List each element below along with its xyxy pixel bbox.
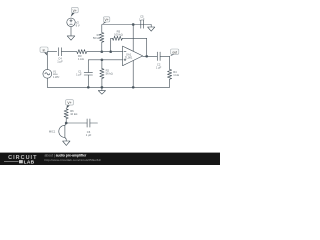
svg-text:56 kΩ: 56 kΩ: [93, 36, 100, 40]
flag V+ (mic): [66, 100, 74, 109]
capacitor C5: [138, 20, 143, 28]
label R2 56 k: [106, 69, 113, 76]
label C6 value: [86, 130, 92, 137]
node mic/R6: [65, 122, 68, 125]
label C5 value: [139, 15, 145, 22]
node minus/R1: [100, 50, 103, 53]
wire R2 top: [101, 60, 103, 69]
node feedback/output: [145, 55, 148, 58]
ground (rail): [98, 87, 105, 94]
node R2/rail: [101, 86, 104, 89]
svg-text:100 kΩ: 100 kΩ: [114, 32, 123, 36]
svg-text:1 kΩ: 1 kΩ: [173, 73, 179, 77]
wire R1 bottom: [101, 42, 103, 51]
label C1 value: [76, 70, 82, 77]
ground (mic): [63, 141, 70, 145]
wire C1 bottom: [87, 75, 89, 87]
label OA1 TL081: [125, 52, 133, 59]
svg-text:1 µF: 1 µF: [156, 65, 162, 69]
capacitor C6: [87, 119, 90, 127]
label C2 value: [156, 62, 162, 69]
op-amp OA1: [123, 46, 143, 66]
svg-text:out: out: [172, 50, 177, 54]
resistor R2: [100, 69, 104, 79]
resistor R1: [100, 33, 104, 43]
flag in: [40, 47, 48, 56]
flag V+ (top rail): [102, 17, 109, 25]
resistor R4: [168, 69, 172, 79]
svg-text:LAB: LAB: [24, 160, 35, 165]
label R6 10 k: [70, 109, 77, 116]
svg-text:1 kΩ: 1 kΩ: [78, 57, 84, 61]
wire bottom rail: [47, 86, 169, 88]
wire V+ supply to op-amp: [132, 25, 134, 52]
label R1 56 k: [93, 33, 101, 40]
svg-text:in: in: [43, 48, 46, 52]
wire V1 top to in-node: [47, 52, 56, 70]
svg-text:V+: V+: [73, 9, 77, 13]
wire op-amp output: [143, 55, 158, 57]
svg-text:V+: V+: [67, 101, 71, 105]
resistor R3: [77, 50, 87, 54]
svg-text:1 kHz: 1 kHz: [53, 76, 60, 79]
flag out: [170, 49, 179, 56]
label V2 9 V: [76, 20, 80, 27]
resistor R5: [113, 36, 123, 40]
svg-text:9 V: 9 V: [76, 23, 80, 27]
svg-text:1 µF: 1 µF: [57, 59, 63, 63]
node C1/rail: [87, 86, 90, 89]
wire top V+ rail: [102, 25, 151, 33]
capacitor C2: [157, 52, 160, 60]
wire V1 bottom: [46, 78, 48, 87]
svg-text:V+: V+: [104, 18, 108, 22]
label C4 value: [57, 56, 63, 63]
node V+ rail junction: [132, 23, 135, 26]
node plus/R2: [101, 58, 104, 61]
wire V- pin to rail: [132, 61, 134, 88]
watermark caption line 1: [45, 153, 87, 157]
svg-text:10 kΩ: 10 kΩ: [70, 112, 77, 116]
watermark CircuitLab logo: [0, 153, 220, 166]
resistor R6: [64, 109, 68, 119]
wire R3 to op-amp minus input: [87, 51, 123, 53]
wire C4 to R3: [62, 51, 77, 53]
capacitor C4: [59, 48, 62, 56]
svg-text:MIC1: MIC1: [49, 130, 56, 134]
svg-text:TL081: TL081: [125, 55, 133, 59]
wire R6 top: [65, 108, 67, 110]
wire R4 bottom: [169, 79, 171, 87]
voltage source V1 (sine): [43, 69, 52, 78]
wire R6 bottom to node: [65, 119, 67, 123]
wire R2 bottom: [101, 78, 103, 87]
svg-text:http://www.circuitlab.com/circ: http://www.circuitlab.com/circuit/25bkx6…: [45, 158, 102, 162]
label V1 sine 1 kHz: [53, 70, 60, 79]
wire plus input line: [88, 60, 122, 73]
capacitor C1: [84, 72, 92, 75]
microphone MIC1: [59, 123, 66, 141]
svg-text:56 kΩ: 56 kΩ: [106, 72, 113, 76]
svg-text:1 µF: 1 µF: [139, 18, 145, 22]
flag V+ (V2 top): [71, 7, 79, 17]
wire V2 to ground: [70, 27, 72, 36]
label MIC1: [49, 130, 56, 134]
voltage source V2: [67, 18, 75, 26]
svg-text:1 µF: 1 µF: [76, 73, 82, 77]
node V-/rail: [132, 86, 135, 89]
svg-text:about | audio pre-amplifier: about | audio pre-amplifier: [45, 153, 87, 157]
wire feedback to output: [122, 38, 146, 56]
watermark caption line 2 (url): [45, 158, 102, 162]
label R4 1 k: [173, 70, 179, 77]
wire C6 right stub: [90, 122, 98, 124]
wire mic node to C6: [66, 122, 87, 124]
wire C2 to out corner: [160, 56, 170, 69]
node minus/feedback: [109, 50, 112, 53]
label R3 1 k: [78, 54, 84, 61]
ground (C5): [148, 25, 155, 32]
label R5 100 k: [114, 29, 123, 36]
wire feedback branch up: [111, 38, 113, 51]
svg-text:1 µF: 1 µF: [86, 133, 92, 137]
ground (V2): [67, 36, 75, 40]
